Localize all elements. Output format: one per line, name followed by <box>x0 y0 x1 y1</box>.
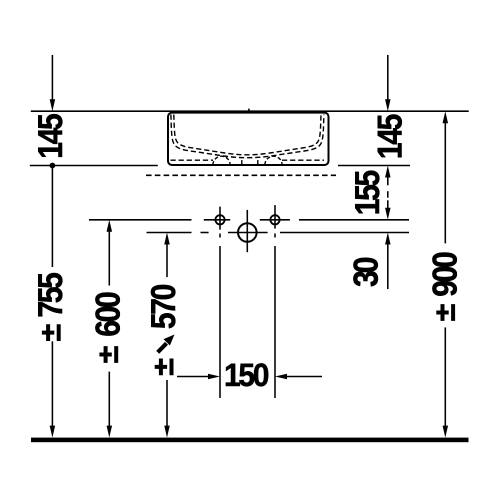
svg-text:755: 755 <box>32 272 70 318</box>
svg-text:155: 155 <box>349 170 387 216</box>
svg-text:145: 145 <box>32 113 70 159</box>
svg-text:30: 30 <box>347 257 385 288</box>
svg-text:145: 145 <box>371 114 409 160</box>
svg-text:150: 150 <box>224 358 270 394</box>
svg-text:900: 900 <box>427 251 465 297</box>
svg-text:600: 600 <box>90 291 128 337</box>
svg-text:570: 570 <box>145 284 183 330</box>
